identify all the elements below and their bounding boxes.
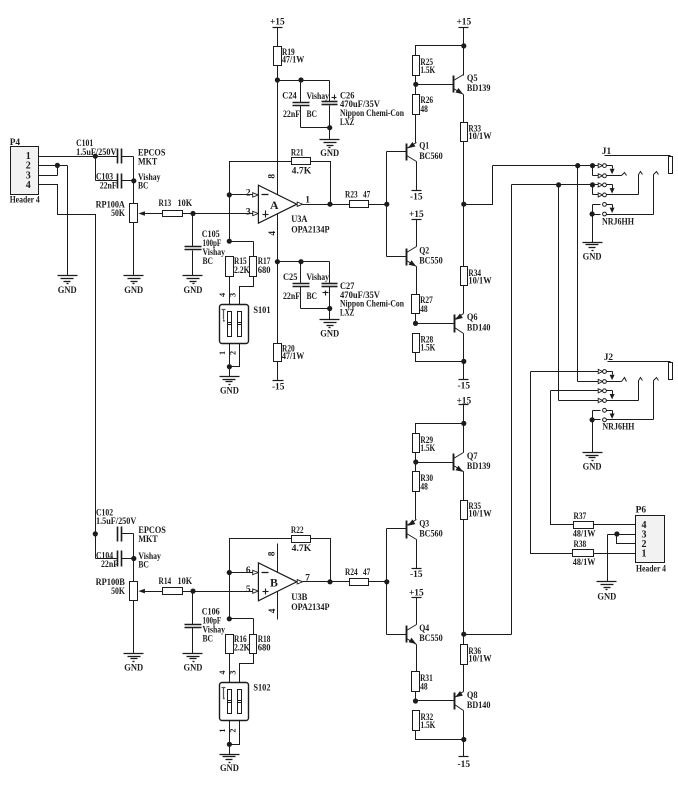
resistor R15 bbox=[226, 257, 251, 277]
wire R24 to bases B bbox=[369, 579, 390, 584]
svg-text:4: 4 bbox=[268, 608, 278, 613]
svg-text:3: 3 bbox=[228, 671, 237, 675]
ground bbox=[220, 377, 240, 397]
wire Q8 collector down bbox=[461, 711, 466, 743]
power -15 output stage B bbox=[458, 757, 471, 770]
power -15 Q3 bbox=[410, 569, 423, 580]
wire Q7 emitter to R35 bbox=[463, 472, 465, 501]
resistor R25 bbox=[413, 56, 436, 77]
resistor R34 bbox=[461, 267, 493, 287]
svg-text:Q6: Q6 bbox=[467, 313, 478, 323]
svg-text:8: 8 bbox=[267, 551, 277, 556]
switch S102 bbox=[218, 671, 271, 733]
resistor R24 bbox=[345, 568, 371, 585]
svg-text:22nF: 22nF bbox=[101, 560, 118, 570]
svg-text:5: 5 bbox=[246, 585, 251, 595]
wire P4 pin2 bbox=[39, 165, 68, 167]
connector J1 bbox=[602, 147, 673, 173]
svg-text:GND: GND bbox=[320, 149, 339, 159]
svg-text:BD140: BD140 bbox=[467, 323, 491, 333]
wire R25 top bbox=[416, 46, 464, 56]
wire C103 right bbox=[122, 178, 137, 203]
header P6 bbox=[636, 506, 667, 575]
svg-text:P4: P4 bbox=[10, 138, 21, 148]
svg-text:48: 48 bbox=[420, 483, 428, 493]
svg-text:P6: P6 bbox=[636, 506, 647, 516]
svg-text:1: 1 bbox=[218, 729, 227, 733]
J2 ring contact bbox=[551, 378, 643, 403]
wire output B to right bbox=[464, 634, 512, 636]
wire P4 pin4 to channel B bbox=[39, 185, 96, 534]
svg-text:47: 47 bbox=[363, 191, 371, 201]
svg-text:BC: BC bbox=[138, 181, 149, 191]
wire pin2 bbox=[230, 194, 253, 196]
ground bbox=[320, 140, 340, 159]
node pin1 bbox=[93, 154, 98, 159]
svg-text:BC560: BC560 bbox=[419, 529, 443, 539]
svg-text:48/1W: 48/1W bbox=[573, 558, 596, 568]
svg-text:MKT: MKT bbox=[138, 535, 158, 545]
wire R29 top bbox=[416, 424, 464, 434]
capacitor C24 bbox=[282, 77, 329, 127]
capacitor C105 bbox=[185, 214, 226, 276]
svg-text:R23: R23 bbox=[345, 191, 358, 201]
node output ch1 bbox=[461, 202, 466, 207]
svg-text:Q5: Q5 bbox=[467, 74, 478, 84]
svg-text:BC550: BC550 bbox=[419, 257, 443, 267]
node pin2 bbox=[227, 192, 232, 197]
wire Q2 emitter to R27 bbox=[416, 267, 418, 295]
svg-text:2.2K: 2.2K bbox=[234, 266, 250, 276]
svg-text:BC: BC bbox=[307, 292, 318, 302]
wire +15 rail to C24 C26 bbox=[278, 81, 330, 102]
wire Q4 base bbox=[387, 634, 407, 636]
svg-text:OPA2134P: OPA2134P bbox=[291, 603, 330, 613]
svg-text:Q1: Q1 bbox=[419, 142, 429, 152]
wire R33 to output node bbox=[463, 142, 465, 267]
svg-text:GND: GND bbox=[124, 664, 143, 674]
capacitor C26 bbox=[322, 91, 405, 127]
svg-text:4: 4 bbox=[268, 231, 278, 236]
transistor Q7 bbox=[454, 452, 491, 472]
wire wiper to R14 bbox=[145, 591, 163, 593]
power +15 output stage bbox=[456, 18, 471, 28]
svg-text:A: A bbox=[270, 198, 279, 212]
svg-text:R22: R22 bbox=[291, 526, 304, 536]
wire R21 to output bbox=[311, 162, 331, 205]
svg-text:22nF: 22nF bbox=[283, 292, 300, 302]
svg-text:10/1W: 10/1W bbox=[468, 655, 492, 665]
wire R19 to opamp pin 8 bbox=[277, 66, 279, 195]
wire Q3 base bbox=[387, 528, 407, 530]
svg-text:+15: +15 bbox=[270, 18, 285, 28]
svg-text:-15: -15 bbox=[458, 381, 471, 391]
capacitor C25 bbox=[283, 259, 329, 308]
resistor R28 bbox=[413, 334, 436, 354]
svg-text:1.5uF/250V: 1.5uF/250V bbox=[96, 517, 136, 527]
header P4 bbox=[10, 138, 40, 206]
resistor R19 bbox=[274, 47, 305, 66]
node output ch2 bbox=[461, 632, 466, 637]
svg-text:4: 4 bbox=[218, 293, 227, 297]
svg-text:BC: BC bbox=[203, 635, 214, 645]
ground bbox=[58, 276, 78, 296]
wire R14 to pin5 bbox=[183, 591, 253, 593]
ground bbox=[124, 276, 144, 296]
svg-text:+15: +15 bbox=[409, 210, 424, 220]
wire R25 R26 node bbox=[413, 76, 453, 95]
svg-text:1.5K: 1.5K bbox=[420, 444, 435, 454]
wire R22 to output bbox=[311, 539, 331, 582]
svg-text:LXZ: LXZ bbox=[340, 118, 354, 128]
wire Q2 collector bbox=[416, 220, 418, 247]
svg-text:10/1W: 10/1W bbox=[468, 132, 492, 142]
svg-text:1.5uF/250V: 1.5uF/250V bbox=[76, 148, 116, 158]
ground bbox=[183, 276, 203, 296]
wire R31 to Q8 base bbox=[413, 692, 455, 704]
wire R18 to S102 bbox=[240, 654, 254, 683]
svg-text:47/1W: 47/1W bbox=[282, 55, 305, 65]
resistor R20 bbox=[274, 344, 305, 363]
wire Q4 emitter to R31 bbox=[416, 645, 418, 672]
capacitor C106 bbox=[185, 592, 226, 654]
wire Q3 collector to -15 bbox=[416, 540, 418, 569]
wire Q1 base bbox=[387, 151, 407, 153]
svg-text:4.7K: 4.7K bbox=[292, 166, 312, 176]
svg-text:Vishay: Vishay bbox=[307, 273, 330, 283]
svg-text:NRJ6HH: NRJ6HH bbox=[602, 423, 635, 433]
wire R38 to P6 pin1 bbox=[594, 553, 636, 555]
svg-text:-15: -15 bbox=[410, 570, 423, 580]
resistor R18 bbox=[250, 635, 271, 654]
svg-text:+15: +15 bbox=[456, 18, 471, 28]
wire feedback inverting input bbox=[230, 162, 292, 242]
J1 tip contact bbox=[493, 163, 627, 178]
svg-text:48: 48 bbox=[420, 683, 428, 693]
wire J2 tip to R38 bbox=[531, 372, 573, 554]
wire R35 to output node B bbox=[463, 520, 465, 645]
svg-text:BC550: BC550 bbox=[419, 634, 443, 644]
svg-text:4: 4 bbox=[218, 671, 227, 675]
svg-text:Q7: Q7 bbox=[467, 452, 478, 462]
power +15 output stage B bbox=[456, 396, 471, 406]
resistor R31 bbox=[412, 672, 434, 693]
resistor R38 bbox=[573, 540, 596, 568]
power +15 Q2 bbox=[409, 210, 424, 220]
svg-text:MKT: MKT bbox=[138, 157, 158, 167]
wire C101 right bbox=[122, 157, 134, 181]
svg-text:GND: GND bbox=[220, 386, 239, 396]
svg-text:1.5K: 1.5K bbox=[421, 721, 436, 731]
wire pins2-3 to ground bbox=[67, 166, 69, 276]
svg-text:R38: R38 bbox=[574, 540, 587, 550]
svg-text:6: 6 bbox=[246, 566, 251, 576]
wire opamp output bbox=[303, 202, 350, 207]
wire bbox=[461, 28, 466, 76]
svg-text:BC560: BC560 bbox=[419, 152, 443, 162]
wire Q8 emitter to R36 bbox=[463, 665, 465, 692]
J1 ring contact bbox=[512, 172, 643, 198]
svg-text:BC: BC bbox=[203, 257, 214, 267]
wire cap bottoms neg bbox=[301, 306, 333, 320]
wire Q1 collector to -15 bbox=[416, 162, 418, 191]
svg-text:R14: R14 bbox=[159, 577, 172, 587]
svg-text:1.5K: 1.5K bbox=[420, 66, 435, 76]
svg-text:680: 680 bbox=[258, 644, 271, 654]
J2 tip contact bbox=[531, 369, 627, 383]
svg-text:4: 4 bbox=[26, 180, 31, 191]
ground bbox=[183, 654, 203, 674]
svg-text:10/1W: 10/1W bbox=[468, 509, 492, 519]
svg-text:R21: R21 bbox=[291, 148, 304, 158]
ground bbox=[583, 453, 603, 473]
transistor Q4 bbox=[407, 624, 443, 645]
svg-text:47/1W: 47/1W bbox=[282, 352, 305, 362]
wire R29 R30 node bbox=[413, 453, 453, 472]
resistor R29 bbox=[413, 434, 436, 455]
resistor R16 bbox=[226, 635, 251, 654]
wire J1 ring to output B bbox=[511, 185, 513, 635]
svg-text:Q4: Q4 bbox=[419, 624, 429, 634]
label NRJ6HH J1 bbox=[602, 217, 635, 227]
svg-text:GND: GND bbox=[184, 664, 203, 674]
wire bbox=[461, 405, 466, 453]
J1 sleeve contact bbox=[590, 172, 659, 217]
ground bbox=[583, 243, 603, 263]
resistor R21 bbox=[291, 148, 312, 176]
wire feedback inverting input B bbox=[230, 539, 292, 619]
divider node B bbox=[227, 616, 254, 634]
svg-text:680: 680 bbox=[258, 266, 271, 276]
transistor Q3 bbox=[407, 519, 443, 539]
transistor Q6 bbox=[455, 313, 491, 333]
svg-text:Q3: Q3 bbox=[419, 519, 429, 529]
svg-text:2.2K: 2.2K bbox=[234, 644, 250, 654]
svg-text:S101: S101 bbox=[253, 306, 270, 316]
transistor Q1 bbox=[407, 142, 443, 162]
resistor R26 bbox=[413, 95, 434, 116]
svg-text:OPA2134P: OPA2134P bbox=[291, 226, 330, 236]
wire C104 right bbox=[122, 556, 137, 582]
transistor Q2 bbox=[407, 246, 443, 266]
wire S102 to ground bbox=[227, 721, 240, 755]
wire wiper to R13 bbox=[145, 213, 163, 215]
wire Q5 emitter to R33 bbox=[463, 95, 465, 123]
wire Q2 base bbox=[387, 256, 407, 258]
transistor Q5 bbox=[454, 74, 491, 94]
potentiometer RP100A bbox=[96, 200, 145, 222]
wire J2 ring to R37 bbox=[551, 391, 574, 525]
wire R27 to Q6 base bbox=[413, 314, 455, 327]
resistor R14 bbox=[159, 577, 193, 595]
wire C102 right bbox=[122, 534, 134, 559]
svg-text:Q8: Q8 bbox=[467, 691, 478, 701]
svg-text:BD139: BD139 bbox=[467, 84, 491, 94]
wire R26 to Q1 bbox=[415, 115, 417, 143]
wire J1 sleeve to ground bbox=[592, 215, 594, 243]
capacitor C104 bbox=[96, 551, 161, 571]
svg-text:LXZ: LXZ bbox=[340, 308, 354, 318]
svg-text:22nF: 22nF bbox=[283, 110, 300, 120]
node input B bbox=[190, 589, 195, 594]
capacitor C101 bbox=[76, 139, 165, 168]
wire -15 rail to C25 C27 bbox=[278, 262, 330, 284]
svg-text:C25: C25 bbox=[283, 273, 298, 283]
svg-text:Header 4: Header 4 bbox=[10, 196, 40, 206]
ground bbox=[597, 582, 617, 603]
svg-text:R24: R24 bbox=[345, 568, 358, 578]
resistor R23 bbox=[345, 191, 371, 208]
svg-text:50K: 50K bbox=[111, 587, 125, 597]
svg-text:1.5K: 1.5K bbox=[421, 343, 436, 353]
svg-text:BD140: BD140 bbox=[467, 701, 491, 711]
op-amp U3B bbox=[246, 551, 330, 613]
wire Q4 collector bbox=[416, 598, 418, 625]
wire P6 pin2 tie bbox=[617, 535, 636, 544]
power +15 Q4 bbox=[409, 589, 424, 599]
resistor R30 bbox=[413, 472, 434, 493]
ground bbox=[220, 755, 240, 775]
ground bbox=[124, 654, 144, 674]
resistor R17 bbox=[250, 257, 271, 277]
svg-text:48: 48 bbox=[420, 305, 428, 315]
wire R20 to -15 bbox=[277, 362, 279, 381]
svg-text:47: 47 bbox=[363, 568, 371, 578]
power -15 opamp bbox=[272, 381, 285, 393]
wire ground drop P6 bbox=[607, 535, 609, 582]
svg-text:+15: +15 bbox=[409, 589, 424, 599]
node pin2-3 bbox=[55, 163, 60, 168]
wire Q6 collector down bbox=[461, 334, 466, 365]
power +15 opamp supply bbox=[270, 18, 285, 28]
wire opamp B pin8 stub bbox=[277, 544, 279, 573]
wire P4 pin1 bbox=[39, 156, 118, 158]
svg-text:48/1W: 48/1W bbox=[573, 530, 596, 540]
wire R30 to Q3 bbox=[415, 492, 417, 520]
svg-text:4.7K: 4.7K bbox=[292, 544, 312, 554]
wire R17 to S101 bbox=[240, 277, 254, 305]
wire J1 ring NC to J2 bbox=[558, 185, 560, 401]
svg-text:U3B: U3B bbox=[291, 593, 307, 603]
svg-text:-15: -15 bbox=[410, 192, 423, 202]
wire S101 to ground bbox=[227, 344, 240, 377]
wire P4 pin3 tie bbox=[39, 166, 58, 176]
wire R32 bottom bbox=[416, 731, 464, 757]
resistor R13 bbox=[159, 199, 193, 216]
resistor R37 bbox=[573, 512, 596, 540]
svg-text:BD139: BD139 bbox=[467, 462, 491, 472]
power -15 Q1 bbox=[410, 191, 423, 203]
wire C104 left parallel bbox=[96, 534, 118, 559]
node pin6 bbox=[227, 570, 232, 575]
wire J1 tip NC to J2 bbox=[577, 166, 579, 382]
wire R15 to S101 bbox=[229, 277, 231, 305]
wire output to J1 bbox=[464, 166, 493, 205]
resistor R22 bbox=[291, 526, 312, 554]
wire R13 to pin3 bbox=[183, 213, 253, 215]
wire RP100B to ground bbox=[133, 601, 135, 654]
wire pin6 bbox=[230, 572, 253, 574]
svg-text:GND: GND bbox=[58, 286, 77, 296]
node -15 opamp bbox=[275, 259, 280, 264]
svg-text:NRJ6HH: NRJ6HH bbox=[602, 217, 635, 227]
svg-text:GND: GND bbox=[583, 252, 602, 262]
op-amp U3A bbox=[246, 174, 330, 236]
wire J2 sleeve to ground bbox=[592, 420, 594, 453]
capacitor C27 bbox=[322, 282, 405, 318]
svg-text:48: 48 bbox=[420, 105, 428, 115]
wire R34 to Q6 emitter bbox=[463, 286, 465, 314]
svg-text:Header 4: Header 4 bbox=[636, 565, 666, 575]
svg-text:-15: -15 bbox=[458, 760, 471, 770]
transistor Q8 bbox=[455, 691, 491, 711]
capacitor C103 bbox=[96, 172, 161, 191]
potentiometer RP100B bbox=[96, 578, 145, 601]
power -15 output stage bbox=[458, 380, 471, 392]
svg-text:3: 3 bbox=[228, 293, 237, 297]
svg-text:1: 1 bbox=[218, 351, 227, 355]
svg-text:10K: 10K bbox=[178, 199, 193, 209]
resistor R27 bbox=[412, 295, 434, 316]
divider node bbox=[227, 239, 254, 257]
wire RP100A to ground bbox=[133, 223, 135, 276]
wire C103 left parallel bbox=[96, 157, 118, 181]
svg-text:GND: GND bbox=[597, 592, 616, 602]
resistor R35 bbox=[461, 501, 493, 520]
svg-text:8: 8 bbox=[267, 174, 277, 179]
svg-text:2: 2 bbox=[246, 189, 251, 199]
svg-text:U3A: U3A bbox=[291, 215, 307, 225]
resistor R33 bbox=[461, 123, 493, 142]
wire bbox=[277, 28, 279, 47]
svg-text:BC: BC bbox=[307, 110, 318, 120]
label NRJ6HH J2 bbox=[602, 423, 635, 433]
svg-text:S102: S102 bbox=[253, 684, 270, 694]
svg-text:-15: -15 bbox=[272, 383, 285, 393]
wire cap bottoms bbox=[301, 125, 333, 139]
svg-text:GND: GND bbox=[124, 286, 143, 296]
svg-text:GND: GND bbox=[320, 330, 339, 340]
wire base node vertical bbox=[386, 152, 388, 257]
svg-text:Vishay: Vishay bbox=[307, 92, 330, 102]
wire opamp pin 4 to R20 bbox=[277, 214, 279, 344]
wire P6 pin3 to ground bbox=[608, 531, 636, 536]
svg-text:10K: 10K bbox=[178, 577, 193, 587]
svg-text:10/1W: 10/1W bbox=[468, 276, 492, 286]
J2 sleeve contact bbox=[590, 378, 659, 423]
capacitor C102 bbox=[93, 508, 166, 545]
wire opamp B pin4 stub bbox=[277, 592, 279, 620]
svg-text:GND: GND bbox=[583, 462, 602, 472]
resistor R32 bbox=[413, 711, 436, 731]
svg-text:3: 3 bbox=[246, 207, 251, 217]
wire R16 to S102 bbox=[229, 654, 231, 683]
svg-text:B: B bbox=[270, 575, 278, 589]
svg-text:22nF: 22nF bbox=[100, 181, 117, 191]
svg-text:R37: R37 bbox=[574, 512, 587, 522]
svg-text:1: 1 bbox=[642, 548, 647, 559]
wire R28 bottom bbox=[416, 353, 464, 380]
resistor R36 bbox=[461, 645, 493, 665]
node +15 filtered bbox=[275, 77, 280, 82]
connector J2 bbox=[604, 353, 673, 379]
svg-text:GND: GND bbox=[220, 764, 239, 774]
wire R23 to bases bbox=[369, 202, 390, 207]
node input bbox=[190, 211, 195, 216]
svg-text:Q2: Q2 bbox=[419, 246, 429, 256]
wire base node vertical B bbox=[386, 529, 388, 635]
ground bbox=[320, 320, 340, 340]
